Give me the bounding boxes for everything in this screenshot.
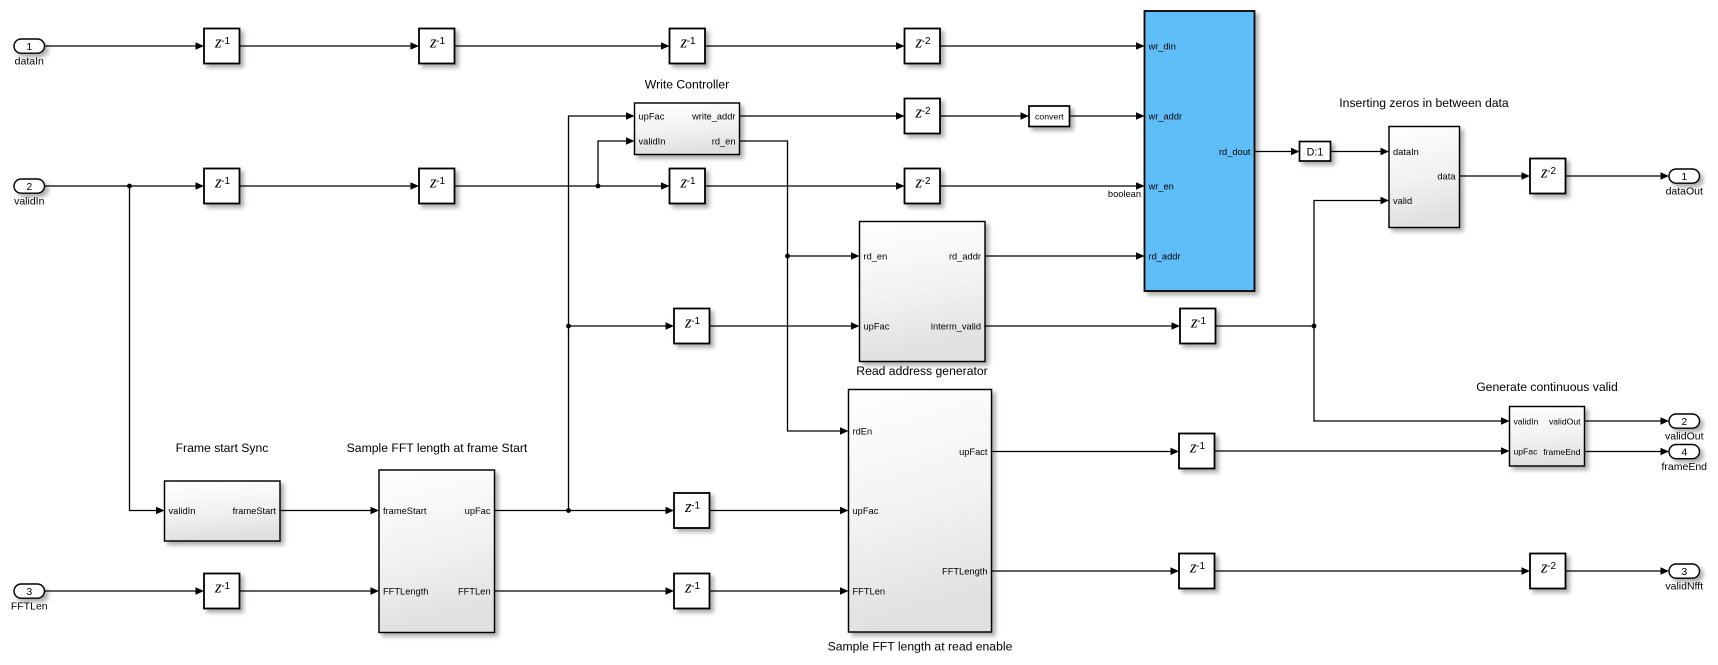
svg-text:-2: -2 xyxy=(922,176,931,187)
wire delay Z4 to RAM wr_din xyxy=(940,45,1136,47)
subsystem Frame start Sync xyxy=(165,481,281,541)
wire upFac out to delay Z12 xyxy=(495,510,666,512)
svg-text:validOut: validOut xyxy=(1665,431,1704,443)
svg-text:3: 3 xyxy=(1681,566,1687,578)
wire FFTLen out to delay Z13 xyxy=(495,590,666,592)
svg-text:Sample FFT length at frame Sta: Sample FFT length at frame Start xyxy=(347,441,528,455)
svg-text:wr_addr: wr_addr xyxy=(1148,111,1183,121)
svg-text:boolean: boolean xyxy=(1108,189,1141,199)
svg-text:-1: -1 xyxy=(691,501,700,512)
wire delay Z3 to delay Z4 xyxy=(705,45,896,47)
delay block Z2 z^-1 xyxy=(419,29,455,64)
junction rd_en branch xyxy=(785,254,790,259)
wire delay Z1 to delay Z2 xyxy=(240,45,411,47)
input port 3 FFTLen xyxy=(14,584,45,598)
svg-text:rd_en: rd_en xyxy=(864,251,888,261)
svg-text:2: 2 xyxy=(26,181,32,193)
svg-text:Inserting zeros in between dat: Inserting zeros in between data xyxy=(1339,96,1509,110)
svg-text:-2: -2 xyxy=(922,106,931,117)
svg-text:rd_en: rd_en xyxy=(712,136,736,146)
svg-text:valid: valid xyxy=(1393,196,1412,206)
svg-text:validOut: validOut xyxy=(1549,416,1581,426)
wire delay Z6 to delay Z7 xyxy=(455,185,662,187)
wire rd_en to Sample FFT length at read enable rdEn xyxy=(740,141,841,431)
svg-text:validIn: validIn xyxy=(14,196,45,208)
svg-text:validIn: validIn xyxy=(1514,416,1539,426)
junction validIn branch xyxy=(127,184,132,189)
subsystem Sample FFT length at frame Start xyxy=(379,470,495,633)
wire validIn port2 to delay Z5 xyxy=(45,185,196,187)
svg-text:FFTLength: FFTLength xyxy=(942,566,987,576)
wire delay Z11 to valid net junction xyxy=(1216,325,1315,327)
wire Inserting zeros data to delay Z17 xyxy=(1460,175,1522,177)
svg-text:upFac: upFac xyxy=(465,506,491,516)
delay block Z16 z^-1 xyxy=(1179,554,1215,589)
svg-text:convert: convert xyxy=(1035,111,1064,121)
wire interm_valid to delay Z11 xyxy=(985,325,1172,327)
wire rd_dout to D:1 xyxy=(1255,151,1291,153)
svg-text:rd_addr: rd_addr xyxy=(1149,251,1181,261)
svg-text:-1: -1 xyxy=(687,176,696,187)
delay block Z11 z^-1 xyxy=(1180,309,1216,344)
svg-text:-1: -1 xyxy=(1196,441,1205,452)
svg-text:upFac: upFac xyxy=(853,506,879,516)
svg-text:-2: -2 xyxy=(1547,561,1556,572)
svg-text:upFac: upFac xyxy=(864,321,890,331)
svg-text:FFTLen: FFTLen xyxy=(11,601,48,613)
wire write_addr to delay Z9 xyxy=(740,115,897,117)
wire valid net down to Generate continuous valid validIn xyxy=(1314,326,1501,421)
svg-text:-1: -1 xyxy=(691,581,700,592)
subsystem Sample FFT length at read enable xyxy=(849,390,992,633)
output port 1 dataOut xyxy=(1669,169,1700,183)
wire delay Z18 to validNfft port xyxy=(1566,570,1661,572)
delay block Z17 z^-2 xyxy=(1530,159,1566,194)
wire upFac vertical to Write Controller upFac xyxy=(569,116,627,511)
svg-text:-1: -1 xyxy=(221,176,230,187)
wire convert to RAM wr_addr xyxy=(1070,115,1137,117)
wire delay Z10 to Read address generator upFac xyxy=(710,325,852,327)
delay block Z12 z^-1 xyxy=(674,493,710,528)
svg-text:2: 2 xyxy=(1681,416,1687,428)
wire upFact to delay Z15 xyxy=(992,451,1171,453)
svg-text:-1: -1 xyxy=(436,36,445,47)
svg-text:upFac: upFac xyxy=(1514,446,1539,456)
output port 3 validNfft xyxy=(1669,564,1700,578)
svg-text:Sample FFT length at read enab: Sample FFT length at read enable xyxy=(828,640,1013,654)
wire delay Z8 to RAM wr_en xyxy=(940,185,1136,187)
svg-text:write_addr: write_addr xyxy=(691,111,735,121)
wire validOut to port2 xyxy=(1585,420,1661,422)
wire delay Z12 to Sample FFT length at read enable upFac xyxy=(710,510,841,512)
svg-text:-1: -1 xyxy=(221,36,230,47)
input port 1 dataIn xyxy=(14,39,45,53)
svg-text:rd_addr: rd_addr xyxy=(949,251,981,261)
wire FFTLen port3 to delay Z14 xyxy=(45,590,196,592)
svg-text:FFTLen: FFTLen xyxy=(458,586,491,596)
delay block Z8 z^-2 xyxy=(905,169,941,204)
svg-text:-1: -1 xyxy=(436,176,445,187)
junction upFac net bottom xyxy=(566,508,571,513)
svg-text:frameStart: frameStart xyxy=(383,506,427,516)
svg-text:validIn: validIn xyxy=(169,506,196,516)
wire valid net up to Inserting zeros valid xyxy=(1314,201,1381,327)
junction valid net xyxy=(1312,324,1317,329)
wire delay Z7 to delay Z8 xyxy=(705,185,896,187)
delay block Z6 z^-1 xyxy=(419,169,455,204)
svg-text:wr_en: wr_en xyxy=(1148,181,1174,191)
svg-text:frameEnd: frameEnd xyxy=(1661,461,1707,473)
svg-text:FFTLength: FFTLength xyxy=(383,586,428,596)
svg-text:-1: -1 xyxy=(1197,316,1206,327)
wire D:1 to Inserting zeros dataIn xyxy=(1331,151,1381,153)
delay block Z15 z^-1 xyxy=(1179,434,1215,469)
junction upFac to delay Z10 xyxy=(566,324,571,329)
svg-text:upFac: upFac xyxy=(639,111,665,121)
wire upFac branch to delay Z10 xyxy=(569,325,666,327)
svg-text:Frame start Sync: Frame start Sync xyxy=(176,441,269,455)
RAM block (dual port RAM, blue) xyxy=(1145,11,1255,291)
delay block Z18 z^-2 xyxy=(1530,554,1566,589)
svg-text:interm_valid: interm_valid xyxy=(931,321,981,331)
delay block Z14 z^-1 xyxy=(204,574,240,609)
svg-text:4: 4 xyxy=(1681,446,1687,458)
svg-text:rdEn: rdEn xyxy=(853,426,873,436)
svg-text:rd_dout: rd_dout xyxy=(1219,147,1251,157)
svg-text:frameStart: frameStart xyxy=(233,506,277,516)
svg-text:-1: -1 xyxy=(691,316,700,327)
svg-text:Write Controller: Write Controller xyxy=(645,78,729,92)
wire rd_en branch to Read address generator rd_en xyxy=(788,255,852,257)
svg-text:wr_din: wr_din xyxy=(1148,41,1176,51)
svg-text:dataOut: dataOut xyxy=(1666,186,1703,198)
svg-text:validIn: validIn xyxy=(639,136,666,146)
wire dataIn port1 to delay Z1 xyxy=(45,45,196,47)
convert block (data type conversion) xyxy=(1029,106,1070,127)
svg-text:Generate continuous valid: Generate continuous valid xyxy=(1476,380,1618,394)
subsystem Read address generator xyxy=(860,222,986,362)
subsystem Generate continuous valid xyxy=(1510,407,1585,467)
output port 2 validOut xyxy=(1669,414,1700,428)
delay block Z10 z^-1 xyxy=(674,309,710,344)
svg-text:3: 3 xyxy=(26,586,32,598)
wire validIn branch down to Frame start Sync xyxy=(130,186,157,511)
svg-text:data: data xyxy=(1437,171,1456,181)
svg-text:dataIn: dataIn xyxy=(15,56,44,68)
subsystem Inserting zeros in between data xyxy=(1389,127,1460,228)
svg-text:-2: -2 xyxy=(1547,166,1556,177)
svg-text:Read address generator: Read address generator xyxy=(856,364,987,378)
svg-text:1: 1 xyxy=(1681,171,1687,183)
junction validIn to Write Controller xyxy=(596,184,601,189)
delay block Z1 z^-1 xyxy=(204,29,240,64)
wire delay Z17 to dataOut port xyxy=(1566,175,1661,177)
input port 2 validIn xyxy=(14,179,45,193)
svg-text:1: 1 xyxy=(26,41,32,53)
svg-text:frameEnd: frameEnd xyxy=(1543,447,1580,457)
wire delay Z13 to Sample FFT length at read enable FFTLen xyxy=(710,590,841,592)
svg-text:validNfft: validNfft xyxy=(1665,581,1703,593)
wire Frame start Sync frameStart to Sample FFT length at frame Start xyxy=(280,510,371,512)
svg-text:FFTLen: FFTLen xyxy=(853,586,886,596)
svg-text:dataIn: dataIn xyxy=(1393,147,1419,157)
svg-text:-1: -1 xyxy=(221,581,230,592)
svg-text:-1: -1 xyxy=(1196,561,1205,572)
svg-text:-1: -1 xyxy=(687,36,696,47)
wire delay Z15 to Generate continuous valid upFac xyxy=(1215,450,1502,452)
delay block Z4 z^-2 xyxy=(905,29,941,64)
wire delay Z14 to Sample FFT length at frame Start FFTLength xyxy=(240,590,371,592)
wire delay Z2 to delay Z3 xyxy=(455,45,662,47)
wire rd_addr to RAM rd_addr xyxy=(985,255,1136,257)
svg-text:D:1: D:1 xyxy=(1307,146,1324,158)
output port 4 frameEnd xyxy=(1669,445,1700,459)
wire delay Z9 to convert xyxy=(940,115,1021,117)
delay block Z7 z^-1 xyxy=(670,169,706,204)
delay block Z9 z^-2 xyxy=(905,99,941,134)
wire FFTLength to delay Z16 xyxy=(992,570,1171,572)
subsystem Write Controller xyxy=(635,103,740,155)
delay block Z5 z^-1 xyxy=(204,169,240,204)
svg-text:upFact: upFact xyxy=(959,447,988,457)
delay block Z13 z^-1 xyxy=(674,574,710,609)
wire frameEnd to port4 xyxy=(1585,451,1661,453)
delay block Z3 z^-1 xyxy=(670,29,706,64)
svg-text:-2: -2 xyxy=(922,36,931,47)
D:1 block (rate transition) xyxy=(1300,142,1331,162)
wire validIn branch up to Write Controller validIn xyxy=(598,141,626,186)
wire delay Z5 to delay Z6 xyxy=(240,185,411,187)
wire delay Z16 to delay Z18 xyxy=(1215,570,1522,572)
